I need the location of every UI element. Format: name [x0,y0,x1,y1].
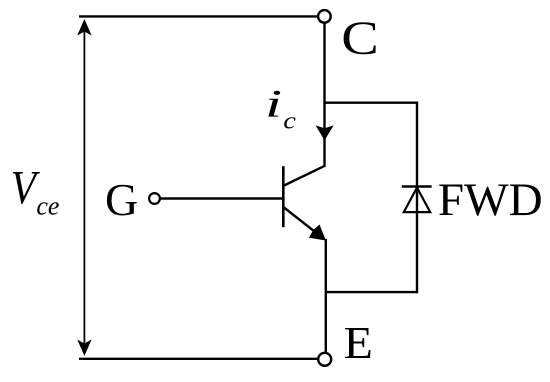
wire: emitter vertical [325,239,327,353]
wire: top bus from left to collector terminal [79,15,318,17]
transistor Q1 emitter arrowhead [309,225,326,241]
svg-text:i: i [265,83,282,126]
wire: diode branch right vertical [416,102,418,294]
svg-text:ce: ce [36,192,59,221]
wire: collector vertical [323,23,325,167]
Vce measurement arrow line [83,22,85,353]
terminal circle E [318,353,331,366]
svg-text:FWD: FWD [438,175,543,226]
svg-text:G: G [105,174,138,225]
Vce arrowhead bottom [77,340,91,357]
svg-text:E: E [344,319,373,368]
Vce arrowhead top [77,19,91,36]
svg-text:c: c [283,106,296,134]
wire: bottom bus [79,358,317,360]
terminal circle C [318,10,331,23]
wire: gate lead [160,197,283,199]
wire: junction to diode branch top [325,101,418,103]
transistor Q1 collector diagonal [284,166,324,185]
terminal circle G [149,193,160,204]
transistor Q1 base bar [282,166,285,227]
current ic arrowhead [316,125,334,140]
diode D1 triangle [404,188,430,213]
diode D1 cathode bar [402,185,432,187]
wire: diode branch bottom [326,291,417,293]
svg-text:C: C [341,12,379,65]
transistor Q1 emitter diagonal [284,208,320,236]
